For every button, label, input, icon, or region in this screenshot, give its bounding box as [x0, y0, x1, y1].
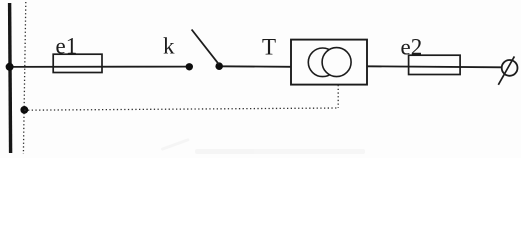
- svg-text:k: k: [163, 34, 175, 59]
- svg-text:T: T: [262, 35, 276, 60]
- svg-text:e2: e2: [401, 35, 423, 60]
- svg-text:e1: e1: [56, 34, 78, 59]
